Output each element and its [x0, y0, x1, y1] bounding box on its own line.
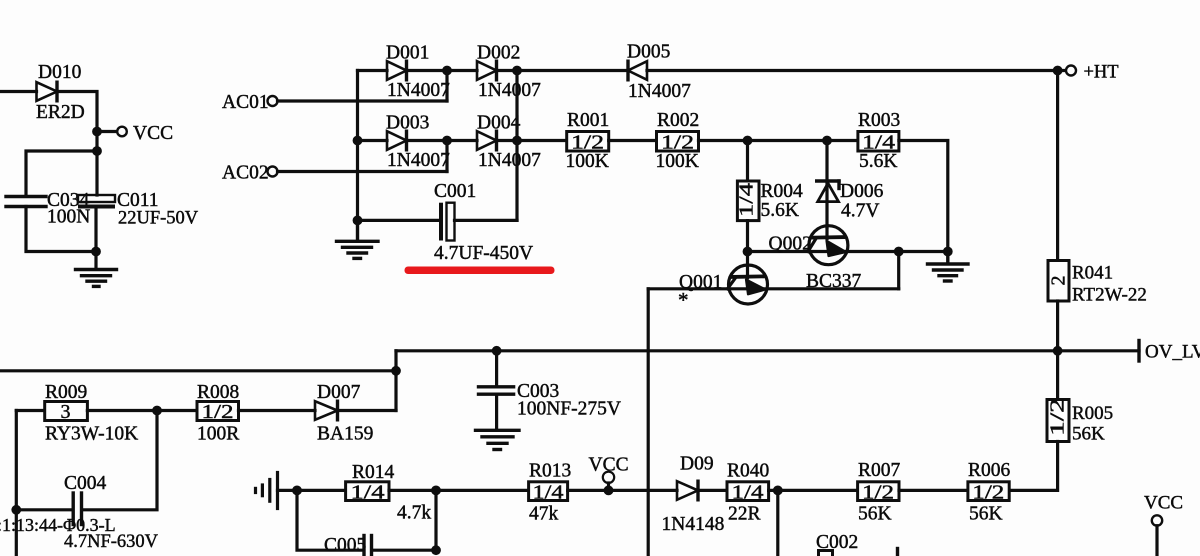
resistor R001: [566, 110, 610, 172]
wire R007 to R006: [899, 489, 968, 492]
svg-text:100R: 100R: [197, 424, 239, 445]
terminal OV_LV: [1139, 341, 1200, 363]
terminal VCC top-left: [117, 127, 127, 137]
svg-text:1/2: 1/2: [862, 482, 894, 504]
svg-text:100K: 100K: [566, 151, 609, 172]
wire AC01: [278, 99, 448, 102]
svg-text:Q002: Q002: [769, 234, 812, 255]
wire D007 to riser: [338, 409, 397, 412]
junction dot: [431, 545, 441, 555]
wire Q001 emitter riser: [897, 252, 900, 289]
wire top rail to D005: [497, 69, 629, 72]
resistor R006: [968, 460, 1011, 525]
svg-text:1N4007: 1N4007: [478, 150, 541, 171]
junction dot: [943, 247, 953, 257]
junction dot: [152, 406, 162, 416]
svg-text:5.6K: 5.6K: [761, 200, 799, 221]
junction dot: [604, 486, 614, 496]
svg-text:*: *: [678, 288, 689, 312]
wire: [407, 69, 478, 72]
capacitor C003: [479, 351, 622, 430]
wire R005 down to R006: [1009, 442, 1057, 491]
C004 loop: [83, 411, 157, 510]
wire bridge right riser: [515, 71, 518, 221]
svg-text:4.7k: 4.7k: [397, 503, 431, 524]
resistor R004 (vertical): [736, 141, 804, 252]
wire: [407, 139, 478, 142]
junction dot: [353, 136, 363, 146]
rotated ground left of R014: [256, 473, 298, 509]
red marker line: [405, 267, 555, 275]
ground right of Q002: [928, 252, 969, 282]
wire to C034 branch: [26, 151, 97, 196]
svg-text:C004: C004: [64, 473, 107, 494]
svg-text:1/2: 1/2: [972, 482, 1004, 504]
svg-text:1N4007: 1N4007: [387, 80, 450, 101]
svg-text:D010: D010: [38, 62, 81, 83]
svg-text:R041: R041: [1072, 263, 1113, 284]
junction dot: [743, 136, 753, 146]
mid vertical from Q001 base: [647, 289, 650, 556]
junction dot: [92, 146, 102, 156]
junction dot + C002 drop: [773, 486, 783, 496]
diode D003: [386, 113, 450, 172]
svg-text:3: 3: [61, 401, 71, 423]
svg-text:4.7NF-630V: 4.7NF-630V: [64, 532, 159, 552]
svg-text:1/4: 1/4: [533, 482, 564, 504]
wire to R014: [297, 489, 346, 492]
svg-text:R005: R005: [1072, 403, 1113, 424]
resistor R009: [45, 382, 138, 445]
capacitor C001: [358, 181, 534, 264]
svg-text:D002: D002: [477, 43, 520, 64]
resistor R007: [858, 460, 901, 525]
svg-text:56K: 56K: [1072, 424, 1105, 445]
svg-text:R013: R013: [529, 461, 571, 482]
rail to OV_LV: [396, 349, 1139, 352]
junction dot: [431, 486, 441, 496]
svg-text:VCC: VCC: [1144, 493, 1183, 514]
node VCC stub: [97, 130, 117, 133]
ground under bridge: [337, 220, 379, 258]
wire left bridge riser: [356, 71, 359, 221]
svg-text:47k: 47k: [529, 504, 559, 525]
resistor R041 (vertical): [1048, 261, 1147, 306]
svg-text:1/4: 1/4: [732, 482, 764, 504]
svg-text:56K: 56K: [858, 504, 892, 525]
svg-text:AC02: AC02: [222, 163, 269, 184]
svg-text:OV_LV: OV_LV: [1145, 342, 1200, 363]
transistor Q001: [678, 252, 768, 313]
resistor R002: [656, 110, 700, 172]
svg-text:AC01: AC01: [222, 92, 269, 113]
svg-text:D09: D09: [680, 454, 714, 475]
wire: [609, 139, 657, 142]
wire to D007: [239, 409, 316, 412]
svg-text:1/2: 1/2: [202, 401, 234, 423]
svg-text:D005: D005: [627, 42, 670, 63]
capacitor C002 (partial at bottom): [816, 532, 898, 556]
svg-text:C005: C005: [324, 535, 366, 556]
svg-text:56K: 56K: [969, 504, 1003, 525]
svg-text:D006: D006: [840, 181, 884, 202]
wire into D010: [0, 90, 37, 93]
junction dot: [92, 127, 102, 137]
capacitor C004: [64, 473, 159, 552]
wire R040 to R007: [769, 489, 858, 492]
ground under C003: [476, 430, 520, 449]
capacitor C034: [6, 190, 90, 228]
wire to R003: [699, 139, 858, 142]
junction dot: [1053, 346, 1063, 356]
resistor R003: [858, 110, 900, 172]
svg-text:R009: R009: [45, 382, 87, 403]
wire C011 down: [94, 209, 97, 270]
diode D002: [477, 43, 541, 102]
svg-text:R001: R001: [567, 110, 609, 131]
svg-text:D007: D007: [317, 382, 361, 403]
wire top rail to D001: [358, 69, 388, 72]
svg-text:R014: R014: [352, 462, 395, 483]
wire to R001: [497, 139, 567, 142]
diode D001: [386, 43, 450, 102]
svg-text:R007: R007: [858, 460, 901, 481]
junction dot + drop to AC01: [442, 66, 452, 76]
capacitor C011: [78, 190, 199, 229]
svg-text:D004: D004: [477, 113, 521, 134]
svg-text:1N4148: 1N4148: [662, 514, 725, 535]
junction dot: [11, 505, 21, 515]
diode D004: [477, 113, 541, 172]
diode D005 (points left): [627, 42, 691, 103]
svg-text:100K: 100K: [656, 151, 699, 172]
resistor R013: [529, 461, 572, 525]
svg-text:C001: C001: [434, 181, 476, 202]
wire top rail to +HT: [647, 69, 1066, 72]
svg-text:RY3W-10K: RY3W-10K: [45, 424, 138, 445]
riser at x396: [394, 351, 397, 411]
svg-text:1/2: 1/2: [1047, 398, 1069, 436]
wire Q001 base rail: [648, 287, 899, 290]
node VCC bottom-right: [1144, 493, 1183, 556]
junction dot: [743, 247, 753, 257]
junction dot: [91, 247, 101, 257]
svg-text:VCC: VCC: [133, 123, 173, 144]
wire R003 right and down: [899, 141, 948, 252]
left drop wire: [15, 411, 18, 556]
wire R013 to D09: [568, 489, 677, 492]
junction dot: [512, 66, 522, 76]
svg-text:2: 2: [1048, 276, 1070, 286]
svg-text:BA159: BA159: [317, 424, 373, 445]
svg-text:4.7V: 4.7V: [841, 201, 879, 222]
svg-text:1N4007: 1N4007: [387, 150, 450, 171]
svg-text:1/4: 1/4: [736, 183, 758, 217]
capacitor C005: [324, 535, 372, 556]
junction dot C003: [492, 346, 502, 356]
ground under C011: [76, 270, 117, 287]
svg-text:1/4: 1/4: [351, 482, 385, 504]
resistor R040: [727, 461, 769, 525]
junction dot: [1053, 66, 1063, 76]
wire to R040: [698, 489, 727, 492]
resistor R005 (vertical): [1047, 398, 1114, 445]
svg-text:R040: R040: [727, 461, 769, 482]
svg-text:1N4007: 1N4007: [628, 81, 691, 102]
wire mid rail to D003: [358, 139, 388, 142]
wire AC02: [278, 170, 448, 173]
svg-text::1:13:44-Φ0.3-L: :1:13:44-Φ0.3-L: [0, 515, 116, 535]
wire to R009: [16, 409, 44, 412]
diode D007: [315, 382, 373, 445]
junction dot: [292, 486, 302, 496]
svg-text:100N: 100N: [47, 207, 90, 228]
wire +HT drop to R041: [1056, 71, 1059, 261]
junction dot: [822, 136, 832, 146]
junction dot + drop to AC02: [442, 136, 452, 146]
svg-text:R008: R008: [197, 382, 239, 403]
wire D010 to corner and down: [57, 92, 97, 196]
junction dot: [391, 366, 401, 376]
wire R041 to R005: [1056, 301, 1059, 400]
svg-text:R006: R006: [968, 460, 1011, 481]
lower-left rail: [0, 369, 396, 372]
svg-text:R002: R002: [657, 110, 699, 131]
wire C034 down: [26, 207, 96, 252]
resistor R014: [346, 462, 432, 524]
svg-text:+HT: +HT: [1084, 63, 1119, 83]
junction dot: [353, 216, 363, 226]
zener D006: [817, 141, 884, 228]
svg-text:22UF-50V: 22UF-50V: [118, 209, 199, 229]
wire R009 to R008: [87, 409, 197, 412]
svg-text:4.7UF-450V: 4.7UF-450V: [434, 243, 533, 264]
junction dot: [512, 136, 522, 146]
svg-text:BC337: BC337: [806, 271, 862, 292]
svg-text:R003: R003: [858, 110, 900, 131]
resistor R008: [197, 382, 239, 445]
svg-text:RT2W-22: RT2W-22: [1072, 285, 1147, 306]
diode D010: [36, 62, 85, 123]
svg-text:D003: D003: [386, 113, 429, 134]
svg-text:R004: R004: [761, 181, 804, 202]
wire R014 to R013: [389, 489, 529, 492]
svg-text:100NF-275V: 100NF-275V: [517, 399, 621, 420]
diode D09: [662, 454, 725, 536]
svg-text:1N4007: 1N4007: [478, 80, 541, 101]
junction dot: [894, 247, 904, 257]
svg-text:22R: 22R: [728, 504, 761, 525]
svg-text:ER2D: ER2D: [36, 102, 85, 123]
wire Q row: [748, 250, 948, 253]
transistor Q002: [769, 226, 848, 265]
C005 loop: [297, 490, 362, 550]
terminal +HT: [1066, 66, 1076, 76]
svg-text:D001: D001: [386, 43, 429, 64]
svg-text:5.6K: 5.6K: [859, 151, 897, 172]
